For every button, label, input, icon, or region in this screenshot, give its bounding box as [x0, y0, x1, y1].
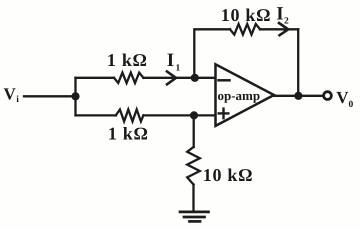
wire resistor to ground — [192, 185, 194, 212]
svg-text:1 kΩ: 1 kΩ — [107, 50, 148, 70]
wire feedback left vertical and top left — [194, 29, 230, 78]
node input junction — [71, 92, 79, 100]
wire feedback right vertical — [297, 29, 299, 96]
wire output — [274, 95, 323, 97]
wire top branch left — [76, 77, 115, 79]
svg-text:op-amp: op-amp — [218, 88, 261, 103]
svg-text:V: V — [336, 88, 349, 107]
op-amp minus sign — [219, 79, 230, 82]
svg-text:10 kΩ: 10 kΩ — [203, 165, 253, 185]
svg-text:1 kΩ: 1 kΩ — [108, 124, 149, 144]
node noninverting input — [190, 111, 198, 119]
svg-text:V: V — [4, 85, 17, 104]
wire bottom branch right — [143, 114, 215, 116]
svg-text:10 kΩ: 10 kΩ — [221, 5, 271, 25]
svg-text:I: I — [167, 50, 174, 71]
label I2 — [276, 4, 289, 27]
op-amp U1 triangle — [216, 64, 275, 126]
op-amp plus sign — [219, 109, 229, 119]
svg-text:1: 1 — [176, 64, 181, 74]
wire feedback top right — [260, 28, 298, 30]
wire bottom branch left — [76, 114, 116, 116]
arrow I2 head — [279, 23, 288, 35]
wire input vertical split — [74, 78, 76, 116]
label Vi — [4, 85, 20, 105]
label Vo — [336, 88, 353, 110]
label I1 — [167, 50, 181, 74]
node inverting input — [191, 74, 199, 82]
ground — [180, 212, 209, 222]
wire top branch right — [143, 77, 216, 79]
terminal output circle — [324, 92, 332, 100]
resistor 10k to ground — [187, 147, 200, 185]
arrow I1 head — [167, 72, 176, 85]
svg-text:i: i — [16, 95, 19, 105]
svg-text:0: 0 — [349, 100, 354, 110]
wire to grounding resistor — [193, 115, 195, 147]
svg-text:I: I — [276, 4, 283, 25]
svg-text:2: 2 — [284, 17, 289, 27]
node output junction — [294, 92, 302, 100]
resistor 1k top — [114, 73, 143, 83]
wire Vi lead — [24, 95, 76, 97]
resistor 10k feedback — [230, 24, 260, 35]
resistor 1k bottom — [116, 110, 144, 122]
